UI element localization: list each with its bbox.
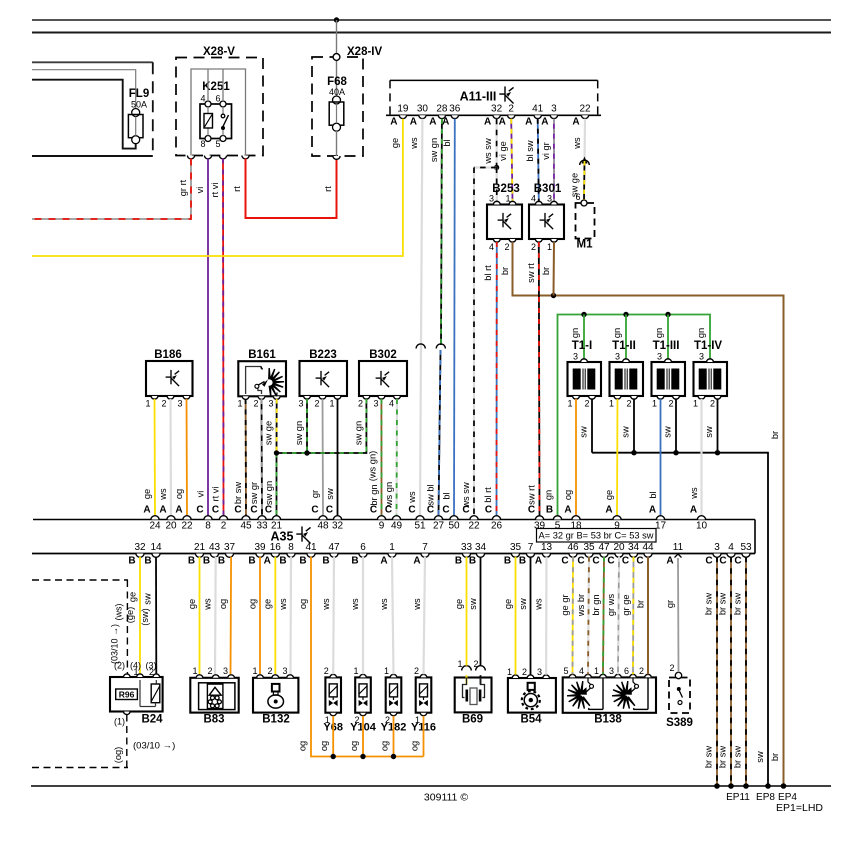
svg-text:32: 32 <box>134 542 146 553</box>
svg-text:17: 17 <box>655 521 667 532</box>
svg-text:C: C <box>370 505 377 516</box>
svg-text:(og): (og) <box>113 747 123 764</box>
svg-text:30: 30 <box>417 104 429 115</box>
svg-text:A: A <box>484 117 491 128</box>
svg-text:sw: sw <box>755 751 765 763</box>
wire ws to Y68 <box>332 557 335 675</box>
svg-text:20: 20 <box>165 521 177 532</box>
svg-text:4: 4 <box>200 94 205 104</box>
svg-text:br sw: br sw <box>233 482 243 504</box>
svg-text:19: 19 <box>397 104 409 115</box>
svg-text:10: 10 <box>696 521 708 532</box>
B83 gear symbol <box>217 700 221 704</box>
svg-text:36: 36 <box>449 104 461 115</box>
wire og from Y182 <box>393 716 395 757</box>
wire br from B253 pin 2 to ground bus <box>513 242 784 786</box>
wire ge A35 pin 32 to B24 pin 1 <box>139 557 141 674</box>
svg-text:C: C <box>462 505 469 516</box>
svg-text:A: A <box>442 117 449 128</box>
svg-text:14: 14 <box>150 542 162 553</box>
svg-text:7: 7 <box>528 542 534 553</box>
wire br sw A35 pin 53 to EP11 <box>745 557 747 786</box>
svg-text:og: og <box>319 741 329 751</box>
svg-text:B138: B138 <box>594 714 622 726</box>
wire ws T1-IV pin 1 to A35 pin 10 <box>700 399 702 516</box>
svg-text:gr rt: gr rt <box>178 179 188 196</box>
wire sw gn B223-3 to green bus <box>306 399 308 453</box>
svg-text:C: C <box>427 505 434 516</box>
B161 coil zigzag <box>269 368 284 397</box>
svg-text:A: A <box>541 117 548 128</box>
svg-text:br sw: br sw <box>733 593 743 615</box>
svg-text:35: 35 <box>510 542 522 553</box>
svg-text:(ws): (ws) <box>114 604 124 621</box>
svg-text:2: 2 <box>221 521 227 532</box>
svg-text:A: A <box>429 117 436 128</box>
svg-text:br sw: br sw <box>718 746 728 768</box>
control unit A35 box <box>33 519 755 521</box>
svg-text:K251: K251 <box>202 81 230 93</box>
wire sw ge / sw gn B161-3 to A35 pin 21 <box>276 399 278 453</box>
svg-text:7: 7 <box>422 542 428 553</box>
wire ws to Y104 <box>362 557 364 675</box>
B161 internal potentiometer symbol <box>246 367 262 395</box>
svg-text:X28-V: X28-V <box>203 46 235 58</box>
svg-text:3: 3 <box>373 399 378 409</box>
svg-text:8: 8 <box>205 521 211 532</box>
svg-text:sw: sw <box>663 426 673 438</box>
B69 piezo symbol <box>463 678 467 698</box>
svg-text:2: 2 <box>522 667 527 677</box>
svg-text:gr ge: gr ge <box>621 594 631 615</box>
svg-text:37: 37 <box>224 542 236 553</box>
svg-text:T1-IV: T1-IV <box>694 340 722 352</box>
svg-text:br: br <box>500 267 510 275</box>
wire ge from A11-III pin 19 <box>32 119 403 256</box>
svg-text:og: og <box>248 599 258 609</box>
svg-text:ge: ge <box>142 489 152 499</box>
svg-text:1: 1 <box>353 666 358 676</box>
svg-text:33: 33 <box>461 542 473 553</box>
wire sw ge to M1 pin 6 <box>583 161 586 200</box>
dashed option box left <box>32 579 128 581</box>
svg-text:ws: ws <box>379 598 389 611</box>
wire ws gn B302-4 to A35 pin 49 <box>395 399 398 516</box>
svg-text:og: og <box>298 741 308 751</box>
svg-text:sw: sw <box>621 426 631 438</box>
svg-text:ws: ws <box>409 137 419 150</box>
svg-text:T1-I: T1-I <box>572 340 592 352</box>
wire og A35 pin 39 to B132 pin 1 <box>259 557 261 674</box>
svg-text:2: 2 <box>414 666 419 676</box>
svg-text:3: 3 <box>699 352 704 362</box>
ws sw branch to A35 pin 22 <box>474 166 497 168</box>
svg-text:21: 21 <box>271 521 283 532</box>
svg-text:EP11: EP11 <box>726 792 750 803</box>
sensor B24 with resistor R96 <box>110 677 163 712</box>
svg-text:C: C <box>705 556 712 567</box>
svg-text:A= 32 gr B= 53 br C= 53 sw: A= 32 gr B= 53 br C= 53 sw <box>539 531 654 541</box>
orange feed wire from A35 pin 41 <box>311 557 424 757</box>
svg-text:27: 27 <box>433 521 445 532</box>
svg-text:4: 4 <box>531 194 536 204</box>
svg-text:A: A <box>499 117 506 128</box>
svg-text:br: br <box>541 267 551 275</box>
svg-text:ws br: ws br <box>576 594 586 617</box>
wire from bus to F68 <box>336 20 338 99</box>
svg-text:B: B <box>504 556 511 567</box>
svg-text:M1: M1 <box>577 239 594 251</box>
svg-text:C: C <box>636 556 643 567</box>
wire br A35 pin 44 to B138 pin 2 <box>647 557 649 675</box>
svg-text:B186: B186 <box>154 349 182 361</box>
svg-text:ws: ws <box>572 137 582 150</box>
svg-text:1: 1 <box>594 666 599 676</box>
B24 thermistor symbol <box>155 680 157 684</box>
svg-text:sw bl: sw bl <box>426 484 436 505</box>
svg-text:1: 1 <box>237 399 242 409</box>
svg-text:bl: bl <box>648 491 658 498</box>
wire ws to Y182 <box>392 557 394 675</box>
svg-text:4: 4 <box>579 666 584 676</box>
X28-V bottom pin bumps <box>187 156 194 159</box>
wire loop inside X28-V <box>191 69 246 156</box>
svg-text:sw gn: sw gn <box>294 421 304 445</box>
svg-text:B: B <box>218 556 225 567</box>
svg-text:bl: bl <box>442 492 452 499</box>
svg-text:2: 2 <box>584 399 589 409</box>
svg-text:A: A <box>535 556 542 567</box>
svg-text:(03/10 →): (03/10 →) <box>110 624 120 664</box>
svg-text:ws sw: ws sw <box>483 138 493 165</box>
svg-text:3: 3 <box>177 399 182 409</box>
svg-text:A: A <box>159 505 166 516</box>
svg-text:2: 2 <box>668 399 673 409</box>
svg-text:C: C <box>622 556 629 567</box>
svg-text:34: 34 <box>475 542 487 553</box>
wire ws A35 pin 13 to B54 pin 3 <box>545 557 548 675</box>
wire sw T1-I pin 2 <box>591 399 593 453</box>
wire bl rt from B253 pin 4 to A35 pin 26 <box>496 242 498 516</box>
wire br sw A35 pin 4 to EP11 <box>730 557 732 786</box>
svg-text:2: 2 <box>626 399 631 409</box>
svg-text:C: C <box>607 556 614 567</box>
wire from FL9 bottom <box>32 80 136 149</box>
wire sw T1-II pin 2 <box>633 399 635 453</box>
wire supply bus line 2 <box>32 32 831 34</box>
wire br gn A35 pin 47 to B138 pin 1 <box>603 557 604 675</box>
svg-text:B: B <box>299 556 306 567</box>
svg-text:(03/10 →): (03/10 →) <box>133 741 175 752</box>
K251 switch symbol <box>221 114 225 118</box>
black ground bus from coils <box>592 453 768 786</box>
svg-text:vi ge: vi ge <box>498 141 508 161</box>
svg-text:A: A <box>413 556 420 567</box>
sensor B83 <box>190 678 238 713</box>
svg-text:sw gn: sw gn <box>429 138 439 162</box>
svg-text:41: 41 <box>532 104 544 115</box>
svg-text:2: 2 <box>504 242 509 252</box>
wire ws from A11-III pin 22 <box>583 119 586 160</box>
B54 gear symbol <box>522 691 540 709</box>
svg-text:3: 3 <box>551 104 557 115</box>
continuation arc on ws wire <box>416 344 425 349</box>
svg-text:9: 9 <box>379 521 385 532</box>
svg-text:2: 2 <box>669 663 674 673</box>
svg-text:2: 2 <box>267 666 272 676</box>
svg-text:C: C <box>250 505 257 516</box>
svg-text:ws: ws <box>534 598 544 611</box>
svg-text:3: 3 <box>537 667 542 677</box>
svg-text:bl rt: bl rt <box>483 487 493 503</box>
svg-text:A: A <box>390 117 397 128</box>
wire ws sw from A11-III pin 32 <box>496 119 498 168</box>
svg-text:ws gn: ws gn <box>384 482 394 507</box>
svg-text:47: 47 <box>328 542 340 553</box>
svg-text:bl rt: bl rt <box>483 265 493 281</box>
svg-text:A: A <box>572 117 579 128</box>
svg-text:B: B <box>279 556 286 567</box>
wire ge A35 pin 16 to B132 pin 2 <box>274 557 276 674</box>
svg-text:B: B <box>188 556 195 567</box>
svg-text:rt vi: rt vi <box>210 183 220 198</box>
svg-text:A: A <box>264 556 271 567</box>
svg-text:br sw: br sw <box>704 593 714 615</box>
svg-text:B: B <box>469 556 476 567</box>
svg-text:1: 1 <box>457 659 462 669</box>
wire ge B186-1 to A35 pin 24 <box>154 399 157 516</box>
wire ge A35 pin 21 to B83 pin 1 <box>199 557 201 674</box>
svg-text:gr: gr <box>310 490 320 498</box>
svg-text:50A: 50A <box>131 100 147 110</box>
ground rail <box>31 785 831 787</box>
svg-text:A: A <box>525 117 532 128</box>
svg-text:B: B <box>322 556 329 567</box>
wire sw rt from B301 pin 2 to A35 pin 39 <box>538 242 541 516</box>
svg-text:og: og <box>298 599 308 609</box>
svg-text:sw gr: sw gr <box>249 482 259 504</box>
svg-text:44: 44 <box>642 542 654 553</box>
svg-text:C: C <box>528 505 535 516</box>
svg-text:sw rt: sw rt <box>526 263 536 283</box>
svg-text:gn: gn <box>544 490 554 500</box>
wire sw B223-1 to A35 pin 32 <box>337 399 339 516</box>
svg-text:6: 6 <box>575 192 580 202</box>
B138 internal left half <box>602 677 604 709</box>
svg-text:28: 28 <box>436 104 448 115</box>
svg-text:C: C <box>234 505 241 516</box>
svg-text:br: br <box>770 753 780 761</box>
svg-text:3: 3 <box>714 542 720 553</box>
wire vi ge from A11-III pin 2 to B253 pin 1 <box>511 119 512 202</box>
switch S389 <box>669 678 690 714</box>
wire ws A35 pin 43 to B83 pin 2 <box>214 557 217 674</box>
svg-text:B: B <box>519 556 526 567</box>
throttle module B138 <box>563 677 656 712</box>
A35 legend box <box>537 529 657 543</box>
svg-text:br: br <box>770 431 780 439</box>
svg-text:20: 20 <box>613 542 625 553</box>
svg-text:3: 3 <box>298 399 303 409</box>
wire bl sw from A11-III pin 41 to B301 pin 4 <box>538 119 539 202</box>
wire sw A35 pin 34 to B69 pin 2 <box>480 557 482 666</box>
svg-text:B83: B83 <box>203 714 224 726</box>
svg-text:2: 2 <box>358 399 363 409</box>
svg-text:br: br <box>636 600 646 608</box>
svg-text:1: 1 <box>547 242 552 252</box>
svg-text:og: og <box>218 599 228 609</box>
wire ge A35 pin 33 to B69 pin 1 <box>466 557 468 666</box>
svg-text:B: B <box>455 556 462 567</box>
svg-text:vi: vi <box>196 491 206 498</box>
svg-text:B69: B69 <box>462 714 483 726</box>
svg-text:35: 35 <box>583 542 595 553</box>
svg-text:32: 32 <box>332 521 344 532</box>
svg-text:B: B <box>248 556 255 567</box>
wire ge A35 pin 35 to B54 pin 1 <box>515 557 517 675</box>
wire gr rt from K251 <box>32 159 191 220</box>
injector Y68 <box>325 677 341 712</box>
svg-text:22: 22 <box>468 521 480 532</box>
svg-text:B: B <box>351 556 358 567</box>
svg-text:B161: B161 <box>248 349 276 361</box>
wire og from Y68 <box>332 716 334 757</box>
svg-text:34: 34 <box>628 542 640 553</box>
svg-text:B: B <box>546 505 553 516</box>
svg-text:C: C <box>442 505 449 516</box>
svg-text:B24: B24 <box>141 714 163 726</box>
green supply bus for coils <box>558 315 711 517</box>
wire ws B186-2 to A35 pin 20 <box>169 399 172 516</box>
svg-text:B223: B223 <box>309 349 337 361</box>
svg-text:og: og <box>349 741 359 751</box>
svg-text:S389: S389 <box>666 717 693 729</box>
knock sensor B69 <box>455 678 492 713</box>
svg-text:ge: ge <box>604 490 614 500</box>
svg-text:24: 24 <box>149 521 161 532</box>
wire br gn B302-3 to A35 pin 9 <box>380 399 382 516</box>
svg-text:11: 11 <box>673 542 684 553</box>
K251 coil symbol <box>204 114 213 129</box>
svg-text:1: 1 <box>192 666 197 676</box>
svg-text:1: 1 <box>389 542 395 553</box>
svg-text:EP8: EP8 <box>756 792 775 803</box>
svg-text:13: 13 <box>541 542 553 553</box>
svg-text:A: A <box>143 505 150 516</box>
wire ge gr A35 pin 46 to B138 pin 5 <box>572 557 575 675</box>
svg-text:sw: sw <box>468 598 478 610</box>
wire sw T1-III pin 2 <box>675 399 677 453</box>
svg-text:2: 2 <box>324 666 329 676</box>
svg-text:39: 39 <box>254 542 266 553</box>
svg-text:A: A <box>690 505 697 516</box>
svg-text:ws: ws <box>689 487 699 500</box>
svg-text:5: 5 <box>563 666 568 676</box>
svg-text:1: 1 <box>145 399 150 409</box>
svg-text:6: 6 <box>624 666 629 676</box>
svg-text:3: 3 <box>657 352 662 362</box>
svg-text:og: og <box>174 489 184 499</box>
svg-text:ws: ws <box>278 598 288 611</box>
svg-text:ws: ws <box>321 598 331 611</box>
svg-text:rt vi: rt vi <box>211 487 221 502</box>
sensor B132 <box>253 678 298 713</box>
svg-text:sw: sw <box>518 598 528 610</box>
svg-text:sw: sw <box>704 426 714 438</box>
wire sw gn B302-2 to green bus <box>365 399 367 447</box>
svg-text:3: 3 <box>282 666 287 676</box>
svg-text:A: A <box>564 505 571 516</box>
svg-text:ge: ge <box>390 138 400 148</box>
svg-text:FL9: FL9 <box>129 88 149 100</box>
svg-text:gn: gn <box>696 328 706 338</box>
svg-text:49: 49 <box>391 521 403 532</box>
motor M1 dashed box <box>576 203 595 239</box>
svg-text:4: 4 <box>728 542 734 553</box>
svg-text:EP1=LHD: EP1=LHD <box>776 802 823 814</box>
wire sw T1-IV pin 2 <box>717 399 719 453</box>
svg-text:2: 2 <box>314 399 319 409</box>
svg-text:T1-II: T1-II <box>612 340 636 352</box>
ignition coil T1-II <box>625 315 627 360</box>
svg-text:B132: B132 <box>262 714 290 726</box>
svg-text:R96: R96 <box>119 690 135 700</box>
injector Y104 <box>355 677 371 712</box>
svg-text:2: 2 <box>207 666 212 676</box>
svg-text:5: 5 <box>555 521 561 532</box>
svg-text:C: C <box>719 556 726 567</box>
injector Y182 <box>386 677 402 712</box>
svg-text:53: 53 <box>740 542 752 553</box>
svg-text:sw: sw <box>579 426 589 438</box>
svg-text:51: 51 <box>414 521 426 532</box>
svg-text:3: 3 <box>573 352 578 362</box>
wire sw gr B161-2 to A35 pin 33 <box>261 399 264 516</box>
svg-text:bl: bl <box>442 139 452 146</box>
svg-text:8: 8 <box>288 542 294 553</box>
svg-text:1: 1 <box>252 666 257 676</box>
svg-text:vi gr: vi gr <box>541 142 551 160</box>
injector Y116 <box>416 677 432 712</box>
svg-text:B: B <box>128 556 135 567</box>
svg-text:C: C <box>561 556 568 567</box>
svg-text:3: 3 <box>489 194 494 204</box>
wire ge T1-II pin 1 to A35 pin 9 <box>616 399 619 516</box>
svg-text:22: 22 <box>181 521 193 532</box>
ignition coil T1-III <box>667 315 669 360</box>
svg-text:1: 1 <box>609 399 614 409</box>
wire rt vi from K251 pin 6/5 <box>222 159 225 517</box>
svg-text:41: 41 <box>305 542 317 553</box>
svg-text:C: C <box>408 505 415 516</box>
svg-text:C: C <box>577 556 584 567</box>
svg-text:B: B <box>203 556 210 567</box>
svg-text:rt: rt <box>323 186 333 192</box>
wire gr A35 pin 11 to S389 <box>677 558 680 672</box>
svg-text:(2): (2) <box>114 661 125 671</box>
svg-text:5: 5 <box>215 139 220 149</box>
dashed wire (og) below B24 <box>126 715 128 768</box>
wire sw A35 pin 7 to B54 pin 2 <box>530 557 532 675</box>
svg-text:ws: ws <box>350 598 360 611</box>
svg-text:C: C <box>212 505 219 516</box>
svg-text:gn: gn <box>612 328 622 338</box>
wire gr B223-2 to A35 pin 48 <box>322 399 325 516</box>
wire ws A35 pin 8 to B132 pin 3 <box>289 557 292 674</box>
wire og B186-3 to A35 pin 22 <box>186 399 189 516</box>
svg-text:3: 3 <box>615 352 620 362</box>
svg-text:3: 3 <box>268 399 273 409</box>
